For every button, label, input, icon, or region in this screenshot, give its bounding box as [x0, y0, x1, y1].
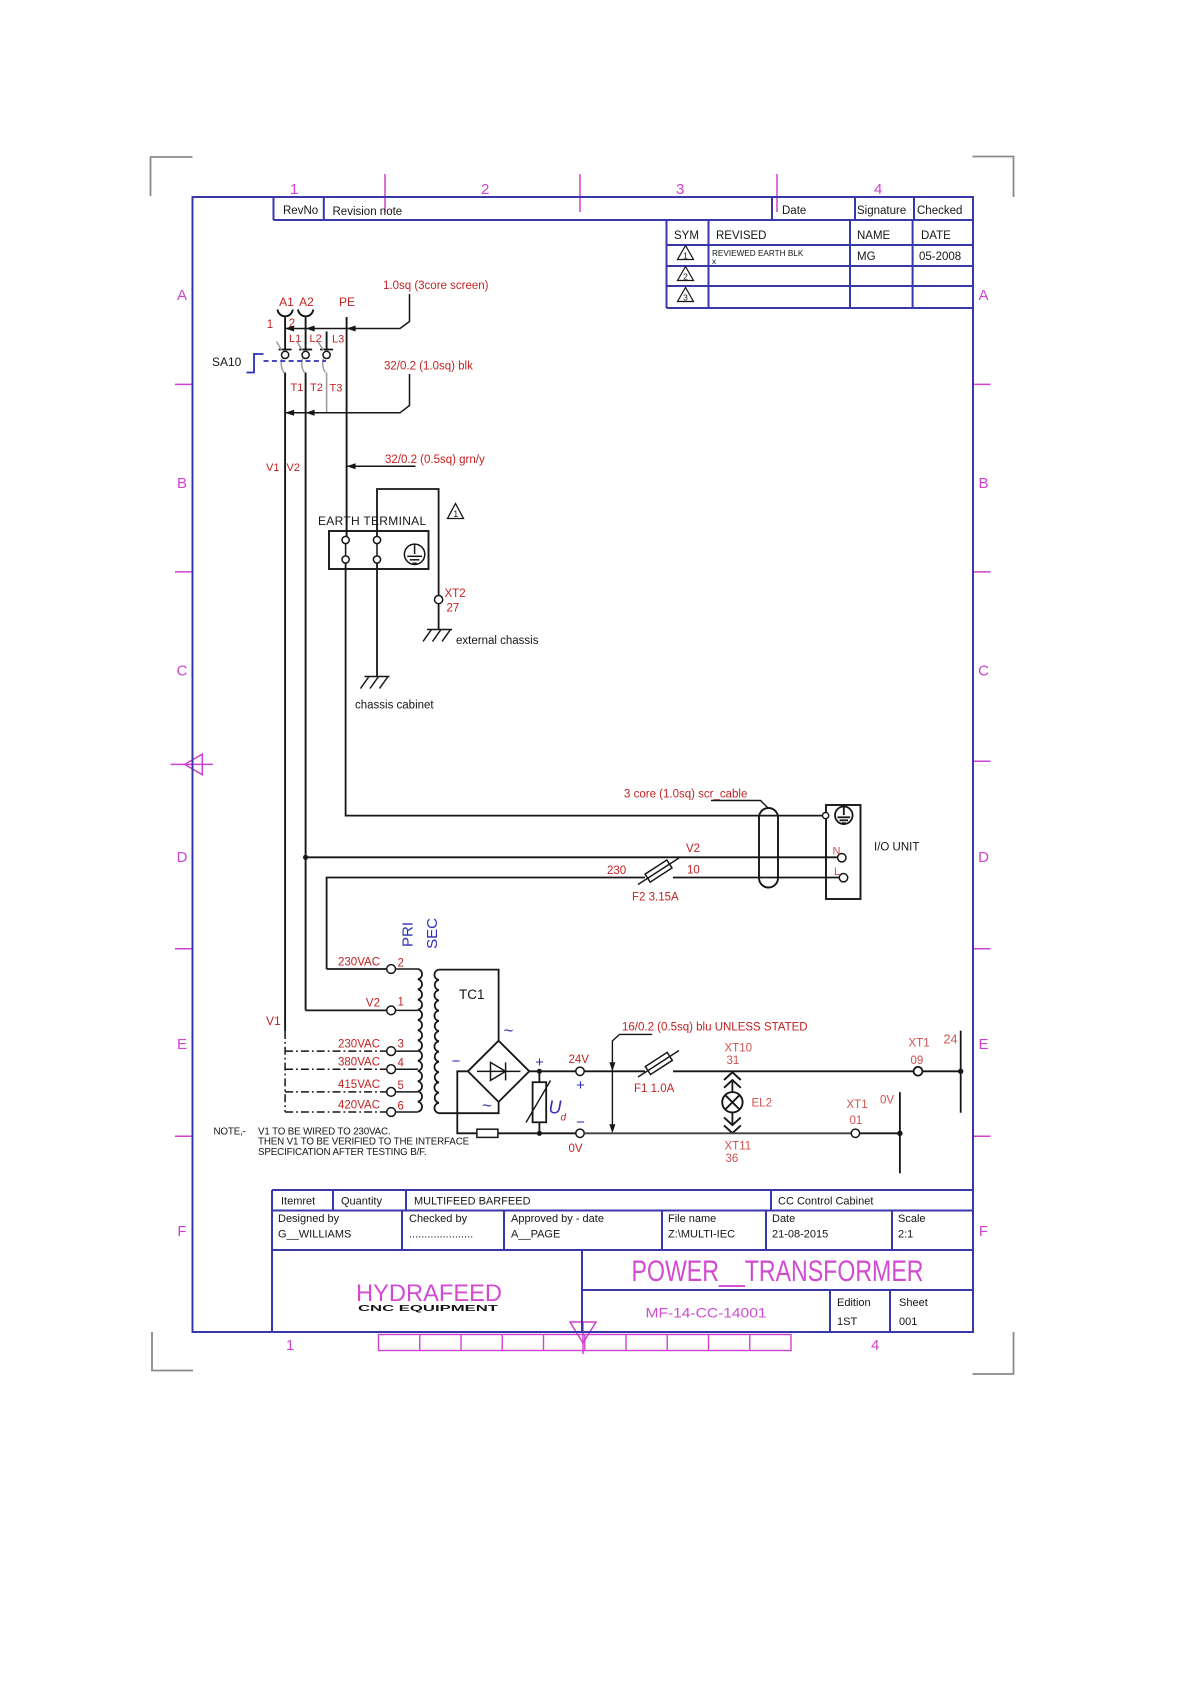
svg-text:File name: File name — [668, 1213, 716, 1225]
svg-text:4: 4 — [871, 1337, 879, 1354]
svg-text:RevNo: RevNo — [283, 205, 318, 217]
svg-text:1.0sq (3core screen): 1.0sq (3core screen) — [383, 280, 489, 292]
svg-text:Edition: Edition — [837, 1297, 871, 1309]
svg-text:4: 4 — [398, 1058, 405, 1070]
wire pole2 upper — [305, 317, 307, 349]
leader2 arrowheads — [285, 410, 315, 416]
warning symbol triangle 1 near earth terminal — [448, 504, 464, 520]
svg-text:C: C — [978, 663, 989, 680]
frame tick top 2/3 — [579, 174, 581, 212]
svg-text:CNC EQUIPMENT: CNC EQUIPMENT — [358, 1303, 500, 1313]
revision note header row — [274, 197, 974, 220]
svg-text:EL2: EL2 — [752, 1098, 772, 1110]
frame centre marker left — [171, 754, 214, 775]
svg-text:MF-14-CC-14001: MF-14-CC-14001 — [646, 1305, 767, 1321]
svg-text:N: N — [833, 846, 841, 858]
svg-text:REVIEWED EARTH BLK: REVIEWED EARTH BLK — [712, 249, 804, 258]
label Ud — [549, 1098, 567, 1124]
connector XT10-31 chevrons — [724, 1072, 741, 1088]
wire earth terminal2 to chassis cabinet — [376, 563, 378, 676]
sheet corner bracket top-left — [151, 157, 193, 196]
svg-text:B: B — [177, 475, 187, 492]
wire 230 tap to fuse F2 — [327, 878, 645, 970]
svg-text:L2: L2 — [310, 333, 322, 345]
frame tick right — [973, 948, 991, 950]
svg-text:XT11: XT11 — [725, 1141, 752, 1153]
sheet corner bracket bottom-left — [152, 1332, 193, 1371]
svg-text:380VAC: 380VAC — [338, 1057, 380, 1069]
wire bridge minus to 0V rail — [457, 1071, 477, 1133]
leader arrowhead at 0V wire — [609, 1124, 615, 1133]
cable leader 32/0.2 1.0sq blk — [285, 374, 409, 413]
svg-text:A: A — [978, 287, 988, 304]
svg-text:MULTIFEED BARFEED: MULTIFEED BARFEED — [414, 1196, 531, 1208]
svg-text:Revision note: Revision note — [333, 206, 403, 218]
wire earth terminal2 to XT2 — [377, 489, 439, 596]
earth terminal clamp 2 — [373, 536, 380, 563]
I/O unit box — [826, 805, 861, 899]
leader scr_cable to screen — [711, 801, 768, 809]
svg-text:5: 5 — [398, 1080, 404, 1092]
svg-text:EARTH TERMINAL: EARTH TERMINAL — [318, 514, 426, 528]
contact pole fixed bar and circle x=326.6 — [320, 350, 333, 359]
revision row1 note REVIEWED EARTH BLK — [712, 249, 804, 266]
junction dot varistor top — [537, 1069, 542, 1074]
wire tap2 horizontal — [327, 968, 387, 970]
svg-text:Designed by: Designed by — [278, 1213, 340, 1225]
wire secondary bottom to bridge — [439, 1102, 499, 1113]
svg-text:24V: 24V — [569, 1054, 590, 1066]
svg-text:Checked: Checked — [917, 205, 962, 217]
svg-text:XT2: XT2 — [445, 588, 466, 600]
terminal XT2 27 circle — [435, 596, 443, 604]
svg-text:+: + — [576, 1077, 585, 1094]
title block column lines row1 — [333, 1190, 771, 1211]
svg-text:3: 3 — [683, 293, 688, 303]
contact pole blade x=285.1 — [277, 342, 284, 373]
svg-text:36: 36 — [726, 1153, 739, 1165]
junction dot 0V bus — [897, 1131, 902, 1136]
svg-text:SPECIFICATION AFTER TESTING B/: SPECIFICATION AFTER TESTING B/F. — [258, 1147, 426, 1158]
svg-text:DATE: DATE — [921, 230, 951, 242]
wire pole3 upper stub — [326, 332, 328, 350]
wire pole1 upper — [284, 317, 286, 349]
leader arrowheads on L1 L2 PE — [285, 326, 356, 332]
terminal 24V circle — [576, 1067, 584, 1075]
24V bus bar — [960, 1031, 962, 1113]
svg-text:REVISED: REVISED — [716, 230, 767, 242]
chassis ground symbol cabinet — [361, 677, 390, 689]
svg-text:PE: PE — [339, 295, 355, 309]
svg-text:chassis cabinet: chassis cabinet — [355, 700, 434, 712]
wire 0V rail to 0V terminal — [498, 1132, 576, 1134]
svg-text:V2: V2 — [366, 998, 380, 1010]
svg-text:external chassis: external chassis — [456, 635, 539, 647]
connector XT11-36 chevrons — [724, 1117, 741, 1133]
wire XT1-01 to 0V bus — [860, 1132, 900, 1134]
protective earth symbol in circle — [404, 544, 424, 564]
svg-text:SEC: SEC — [424, 918, 441, 949]
svg-text:~: ~ — [482, 1096, 492, 1115]
svg-text:d: d — [561, 1113, 567, 1124]
svg-text:SA10: SA10 — [212, 355, 242, 369]
wire V2 to tap1 — [306, 1009, 387, 1011]
svg-text:32/0.2 (1.0sq) blk: 32/0.2 (1.0sq) blk — [384, 361, 473, 373]
svg-text:T3: T3 — [330, 383, 343, 395]
terminal 0V circle — [576, 1129, 584, 1137]
svg-text:−: − — [576, 1114, 585, 1131]
wire PE vertical — [346, 317, 348, 536]
I/O protective earth symbol — [835, 807, 853, 825]
fuse F2 — [638, 858, 679, 885]
transformer tap circle 2 — [387, 965, 396, 974]
wire T3 stub lower — [326, 373, 328, 414]
svg-text:I/O UNIT: I/O UNIT — [874, 842, 919, 854]
wire V1 vertical — [284, 373, 286, 1032]
leader arrowhead at 24V wire — [609, 1062, 615, 1071]
contact pole fixed bar and circle x=305.6 — [299, 350, 312, 359]
svg-text:.....................: ..................... — [409, 1229, 473, 1241]
transformer tap circle 4 — [387, 1065, 396, 1074]
svg-text:2: 2 — [683, 272, 688, 282]
frame tick right — [973, 760, 991, 762]
svg-text:PRI: PRI — [400, 922, 417, 947]
svg-text:3 core (1.0sq) scr_cable: 3 core (1.0sq) scr_cable — [624, 789, 747, 801]
svg-text:10: 10 — [687, 865, 700, 877]
tap stub to winding 2 — [396, 968, 418, 970]
svg-text:Itemret: Itemret — [281, 1196, 315, 1208]
wire chevron to lamp — [731, 1080, 733, 1092]
title block column lines row3 — [582, 1250, 890, 1332]
wire 24V to fuse F1 — [584, 1070, 645, 1072]
wire F1 to XT1-09 — [673, 1070, 914, 1072]
wire V2 to I/O N — [306, 856, 838, 858]
I/O terminal L circle — [839, 874, 847, 882]
transformer tap circle 6 — [387, 1108, 396, 1117]
junction dot 24 bus — [958, 1069, 963, 1074]
svg-text:24: 24 — [944, 1033, 958, 1047]
wire XT2 to external chassis — [438, 604, 440, 630]
lamp EL2 — [722, 1092, 742, 1112]
svg-text:L: L — [834, 866, 840, 878]
bridge diode symbol — [477, 1062, 521, 1080]
svg-text:Quantity: Quantity — [341, 1196, 382, 1208]
svg-text:CC Control Cabinet: CC Control Cabinet — [778, 1196, 873, 1208]
transformer tap circle 1 — [387, 1006, 396, 1015]
svg-text:Scale: Scale — [898, 1213, 926, 1225]
I/O earth entry circle — [823, 813, 829, 819]
svg-text:1: 1 — [267, 319, 273, 331]
svg-text:001: 001 — [899, 1316, 917, 1328]
transformer secondary winding — [434, 970, 438, 1114]
svg-text:230VAC: 230VAC — [338, 1039, 380, 1051]
svg-text:Signature: Signature — [857, 205, 906, 217]
svg-text:6: 6 — [398, 1101, 404, 1113]
svg-text:T2: T2 — [310, 382, 323, 394]
cable leader 1.0sq 3core screen — [285, 294, 409, 329]
contact pole blade x=326.6 — [318, 342, 325, 373]
contact pole fixed bar and circle x=285.1 — [279, 350, 292, 359]
wire 0V to XT1-01 — [584, 1132, 851, 1134]
frame tick right — [973, 571, 991, 573]
svg-text:L3: L3 — [332, 334, 344, 346]
link rectangle on 0V rail — [477, 1129, 498, 1137]
svg-text:4: 4 — [874, 181, 882, 198]
svg-text:A: A — [177, 287, 187, 304]
svg-text:TC1: TC1 — [459, 987, 485, 1002]
svg-text:21-08-2015: 21-08-2015 — [772, 1229, 828, 1241]
frame tick left — [175, 1135, 193, 1137]
tap stub to winding 6 — [396, 1111, 418, 1113]
svg-text:A__PAGE: A__PAGE — [511, 1229, 560, 1241]
junction dot varistor bottom — [537, 1131, 542, 1136]
chassis ground symbol external — [423, 630, 452, 642]
fold mark triangle bottom centre — [570, 1322, 596, 1354]
title block column lines row2 — [402, 1211, 892, 1251]
title block row lines — [272, 1211, 973, 1291]
frame tick top 3/4 — [776, 174, 778, 212]
svg-text:Z:\MULTI-IEC: Z:\MULTI-IEC — [668, 1229, 735, 1241]
tap stub to winding 1 — [396, 1009, 418, 1011]
frame tick right — [973, 1135, 991, 1137]
svg-text:G__WILLIAMS: G__WILLIAMS — [278, 1229, 351, 1241]
svg-text:230: 230 — [607, 865, 626, 877]
junction dot V2 branch — [303, 855, 308, 860]
tap stub to winding 5 — [396, 1091, 418, 1093]
svg-text:1: 1 — [398, 997, 404, 1009]
svg-text:V1: V1 — [266, 462, 279, 474]
SA10 actuator bracket — [247, 354, 264, 373]
sheet corner bracket bottom-right — [973, 1332, 1014, 1374]
revision symbol triangle 2 — [678, 267, 694, 282]
drawing frame border — [193, 197, 974, 1332]
svg-text:B: B — [978, 475, 988, 492]
wire V2 vertical — [305, 373, 307, 1011]
svg-text:V2: V2 — [686, 843, 700, 855]
transformer primary winding — [418, 969, 422, 1112]
scale bar — [379, 1335, 792, 1351]
svg-text:F1 1.0A: F1 1.0A — [634, 1083, 675, 1095]
wire secondary top to bridge — [439, 970, 499, 1041]
svg-text:420VAC: 420VAC — [338, 1100, 380, 1112]
svg-text:0V: 0V — [569, 1143, 583, 1155]
svg-text:3: 3 — [676, 181, 684, 198]
svg-text:1: 1 — [683, 251, 688, 261]
svg-text:F: F — [177, 1223, 186, 1240]
contact pole blade x=305.6 — [297, 342, 304, 373]
svg-text:1ST: 1ST — [837, 1316, 857, 1328]
frame tick left — [175, 383, 193, 385]
svg-text:32/0.2 (0.5sq) grn/y: 32/0.2 (0.5sq) grn/y — [385, 454, 485, 466]
svg-text:2: 2 — [481, 181, 489, 198]
earth terminal block outline — [329, 531, 429, 569]
revision symbol triangle 3 — [678, 288, 694, 303]
svg-text:POWER__TRANSFORMER: POWER__TRANSFORMER — [632, 1255, 924, 1288]
fuse F1 — [638, 1051, 679, 1078]
svg-text:−: − — [452, 1053, 461, 1070]
title block outline — [272, 1190, 973, 1332]
svg-text:V1: V1 — [266, 1014, 281, 1028]
tap stub to winding 3 — [396, 1050, 418, 1052]
svg-text:D: D — [978, 849, 989, 866]
svg-text:L1: L1 — [289, 333, 301, 345]
I/O terminal N circle — [838, 854, 846, 862]
svg-text:31: 31 — [727, 1055, 740, 1067]
svg-text:NAME: NAME — [857, 230, 891, 242]
svg-text:Date: Date — [782, 205, 806, 217]
svg-text:2:1: 2:1 — [898, 1229, 913, 1241]
wire PE run to I/O unit — [346, 563, 823, 816]
wire lamp to chevron — [731, 1113, 733, 1126]
svg-text:x: x — [712, 257, 716, 266]
coil terminal arc A2 — [298, 310, 313, 317]
svg-text:1: 1 — [290, 181, 298, 198]
svg-text:SYM: SYM — [674, 230, 699, 242]
svg-text:27: 27 — [447, 603, 460, 615]
varistor Ud body — [526, 1071, 551, 1133]
svg-text:16/0.2 (0.5sq) blu UNLESS STAT: 16/0.2 (0.5sq) blu UNLESS STATED — [622, 1022, 808, 1034]
SA10 mechanical linkage dashed — [264, 360, 327, 362]
svg-text:A1: A1 — [279, 295, 294, 309]
earth terminal clamp 1 — [342, 536, 349, 563]
sheet corner bracket top-right — [973, 157, 1014, 198]
frame tick left — [175, 571, 193, 573]
leader3 arrowhead — [347, 463, 356, 469]
svg-text:01: 01 — [850, 1115, 863, 1127]
svg-text:E: E — [978, 1036, 988, 1053]
svg-text:415VAC: 415VAC — [338, 1079, 380, 1091]
cable leader 32/0.2 0.5sq grn/y — [347, 465, 416, 467]
svg-text:Approved by - date: Approved by - date — [511, 1213, 604, 1225]
svg-text:Sheet: Sheet — [899, 1297, 928, 1309]
svg-text:0V: 0V — [880, 1095, 894, 1107]
wire XT1-09 to 24 bus — [922, 1070, 961, 1072]
svg-text:Date: Date — [772, 1213, 795, 1225]
svg-text:230VAC: 230VAC — [338, 957, 380, 969]
svg-text:1: 1 — [453, 509, 458, 519]
transformer tap circle 5 — [387, 1088, 396, 1097]
svg-text:Checked by: Checked by — [409, 1213, 468, 1225]
revision symbol triangle 1 — [678, 246, 694, 261]
coil terminal arc A1 — [278, 310, 293, 317]
terminal XT1-01 circle — [851, 1129, 859, 1137]
svg-text:2: 2 — [398, 958, 404, 970]
wire fuse F2 to I/O L — [673, 877, 839, 879]
svg-text:XT10: XT10 — [725, 1043, 753, 1055]
svg-text:~: ~ — [504, 1021, 514, 1040]
leader 16/0.2 line — [612, 1034, 652, 1129]
svg-text:F2 3.15A: F2 3.15A — [632, 892, 679, 904]
svg-text:NOTE,-: NOTE,- — [214, 1127, 246, 1138]
svg-text:D: D — [177, 849, 188, 866]
svg-text:T1: T1 — [291, 382, 304, 394]
cable screen capsule — [759, 808, 778, 888]
svg-text:F: F — [979, 1223, 988, 1240]
svg-text:1: 1 — [286, 1337, 294, 1354]
dash-dot V1 tap selector — [285, 1031, 387, 1112]
transformer tap circle 3 — [387, 1047, 396, 1056]
0V bus bar — [899, 1092, 901, 1173]
svg-text:05-2008: 05-2008 — [919, 251, 961, 263]
svg-text:A2: A2 — [299, 295, 314, 309]
revision SYM table — [667, 220, 974, 308]
svg-text:V2: V2 — [287, 462, 300, 474]
note text — [214, 1127, 470, 1159]
wire bridge plus to 24V terminal — [529, 1070, 576, 1072]
frame tick top 1/2 — [384, 174, 386, 212]
frame tick right — [973, 383, 991, 385]
frame tick left — [175, 948, 193, 950]
svg-text:XT1: XT1 — [847, 1099, 868, 1111]
terminal XT1-09 circle — [914, 1067, 923, 1076]
tap stub to winding 4 — [396, 1068, 418, 1070]
svg-text:MG: MG — [857, 251, 876, 263]
svg-text:C: C — [177, 663, 188, 680]
svg-text:+: + — [535, 1054, 544, 1071]
svg-text:3: 3 — [398, 1039, 404, 1051]
bridge rectifier diamond — [468, 1041, 529, 1102]
svg-text:09: 09 — [911, 1055, 924, 1067]
svg-text:XT1: XT1 — [909, 1038, 930, 1050]
svg-text:E: E — [177, 1036, 187, 1053]
